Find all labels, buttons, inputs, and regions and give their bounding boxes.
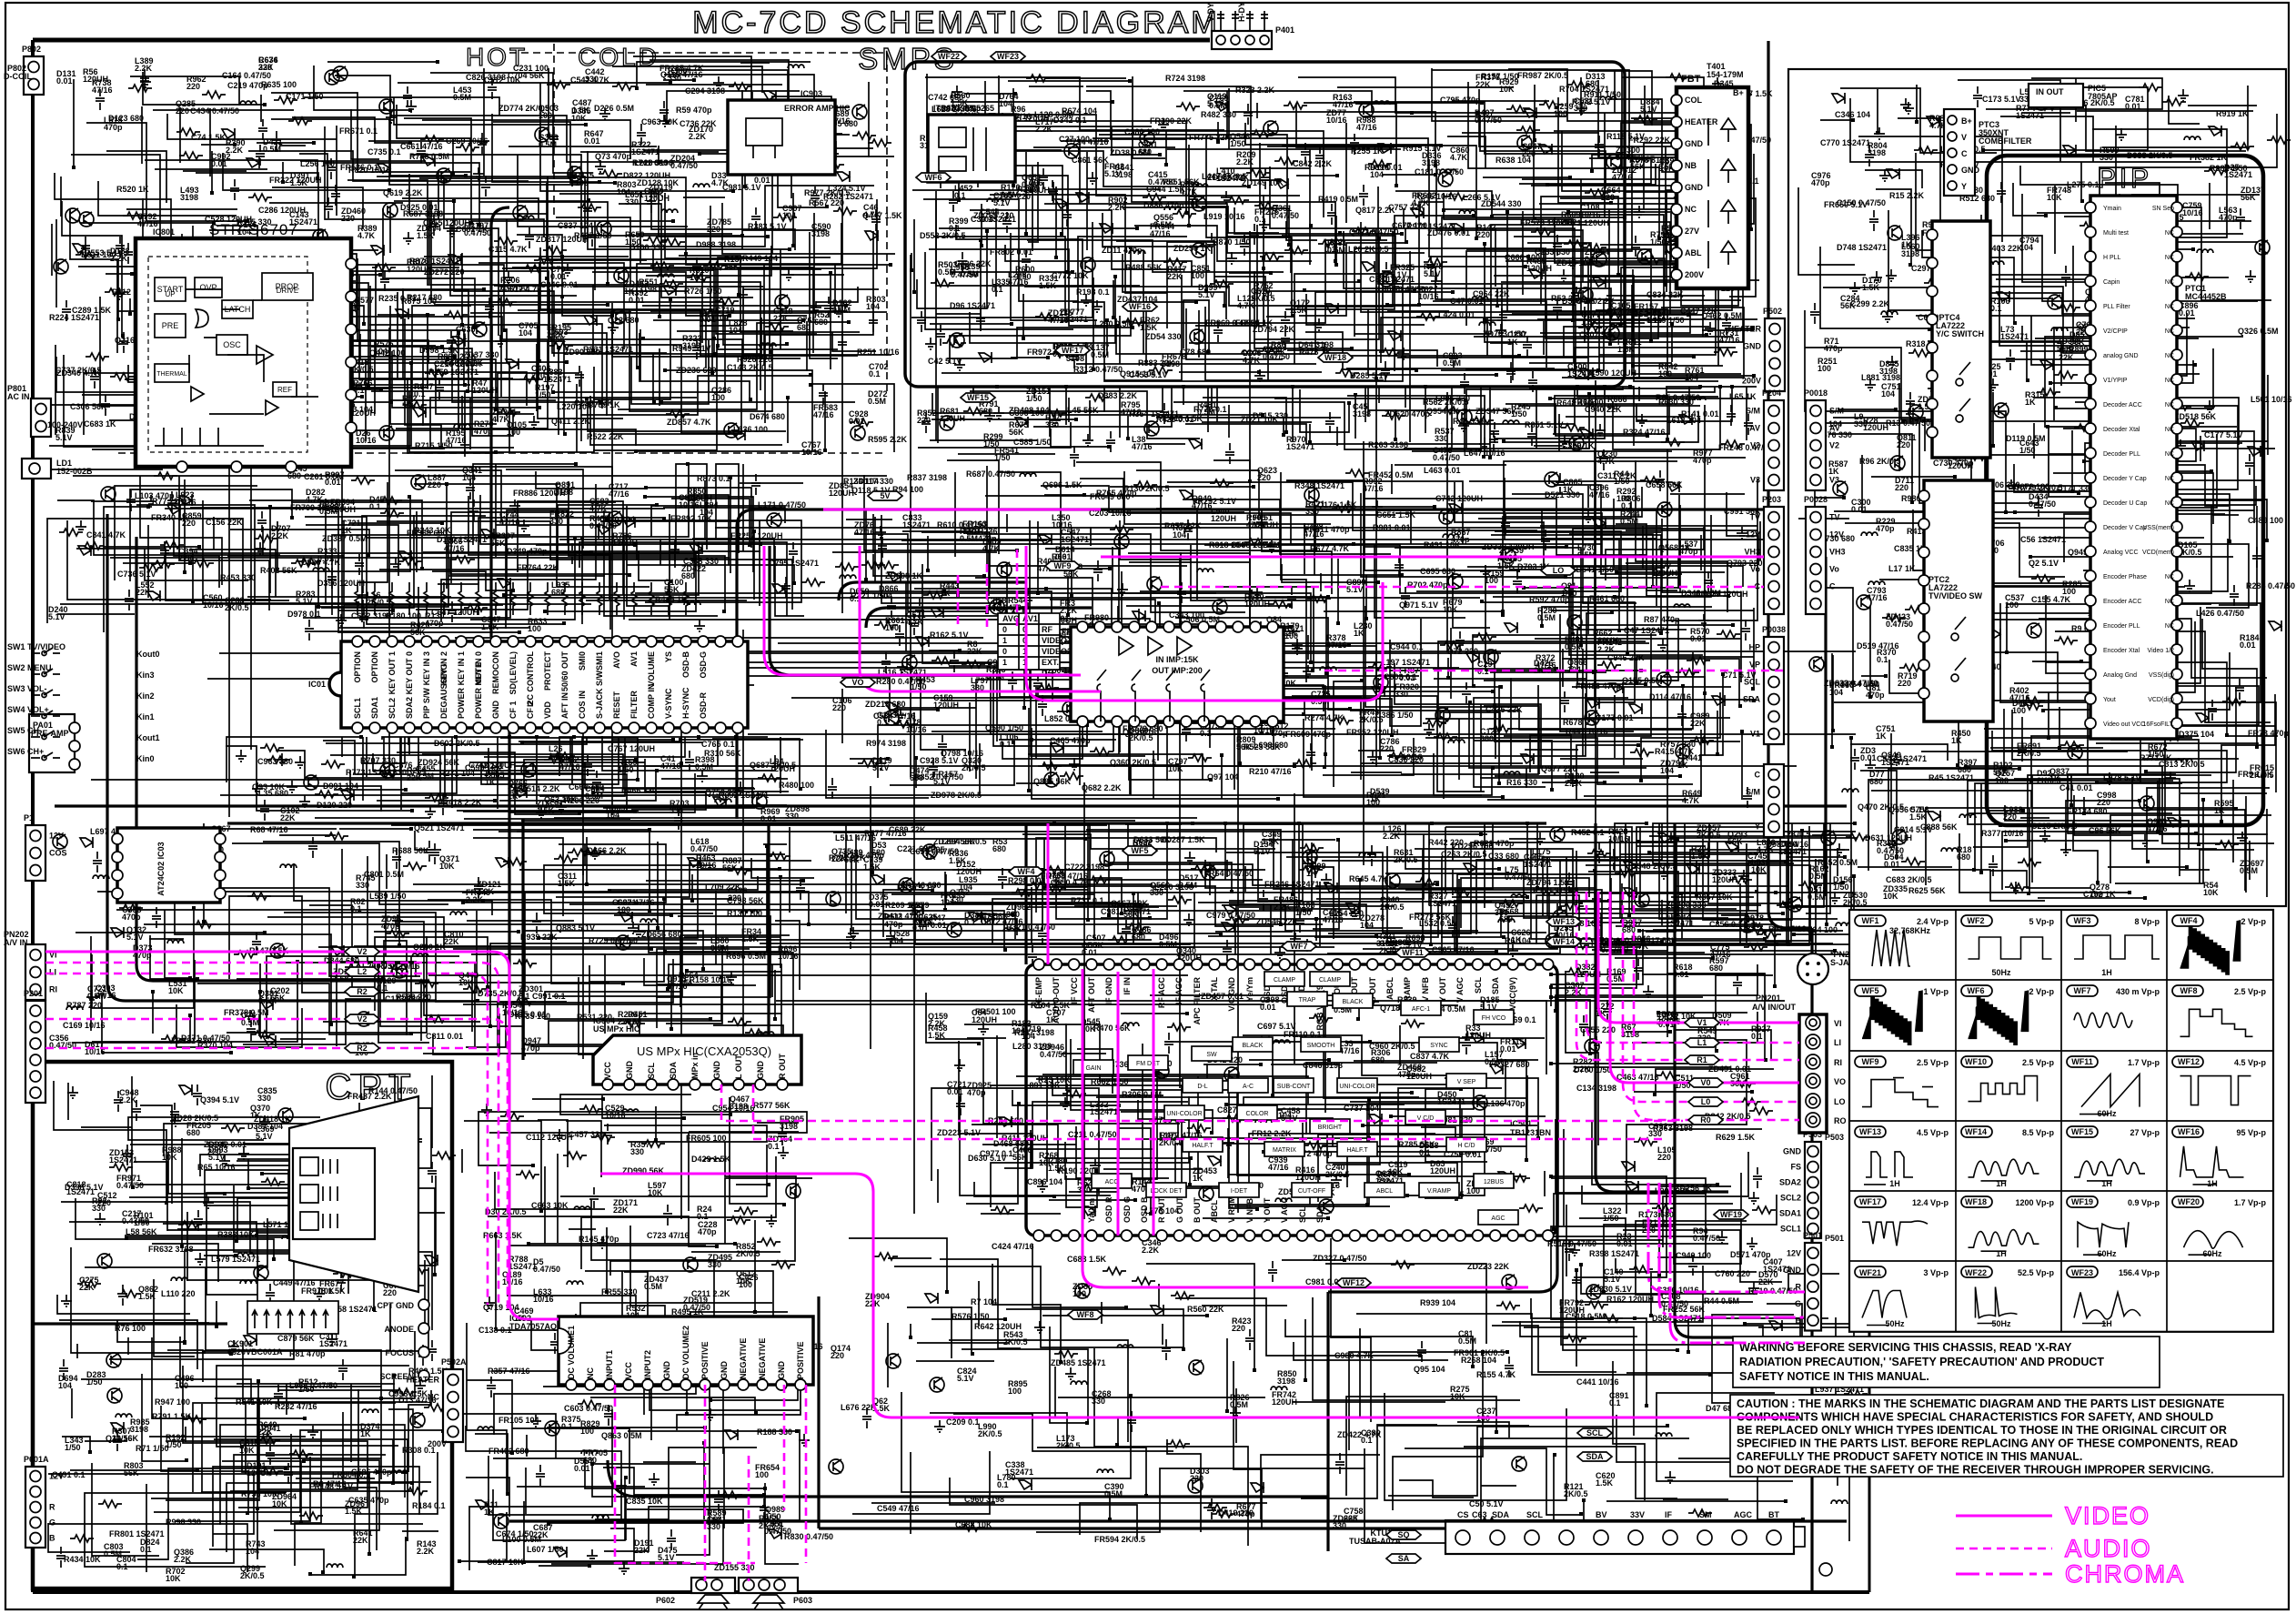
svg-text:C603 0.47/50: C603 0.47/50 xyxy=(564,1404,613,1413)
svg-text:C965 47/16: C965 47/16 xyxy=(1432,945,1475,954)
svg-text:C964 22K: C964 22K xyxy=(1473,289,1510,298)
svg-text:1/50: 1/50 xyxy=(983,439,1000,449)
svg-text:Kin0: Kin0 xyxy=(136,754,155,763)
svg-text:WF15: WF15 xyxy=(967,393,989,402)
svg-text:C306 56K: C306 56K xyxy=(70,402,107,411)
svg-text:D114 47/16: D114 47/16 xyxy=(1649,692,1691,701)
svg-text:MC-7CD SCHEMATIC DIAGRAM: MC-7CD SCHEMATIC DIAGRAM xyxy=(692,5,1220,40)
svg-text:680: 680 xyxy=(1371,1055,1385,1064)
svg-text:5.1V: 5.1V xyxy=(1254,847,1271,856)
svg-text:470p: 470p xyxy=(1824,344,1843,353)
svg-text:220: 220 xyxy=(707,225,720,234)
svg-text:22K: 22K xyxy=(178,554,194,563)
svg-text:FR411 470p: FR411 470p xyxy=(1304,525,1350,534)
svg-text:R247 3198: R247 3198 xyxy=(1014,1028,1054,1037)
svg-text:1/50: 1/50 xyxy=(1015,272,1032,281)
svg-text:Q73 470p: Q73 470p xyxy=(595,152,632,161)
svg-text:GND: GND xyxy=(1783,1147,1802,1156)
svg-text:220: 220 xyxy=(341,214,355,223)
svg-text:220: 220 xyxy=(1380,744,1394,753)
svg-text:AV1: AV1 xyxy=(629,651,639,667)
svg-text:47/16: 47/16 xyxy=(1132,442,1153,451)
svg-text:Yout: Yout xyxy=(2103,697,2116,703)
svg-text:REMOCON: REMOCON xyxy=(491,651,500,694)
svg-text:MPx in: MPx in xyxy=(690,1053,700,1079)
svg-text:3198: 3198 xyxy=(780,1122,798,1131)
svg-text:27 Vp-p: 27 Vp-p xyxy=(2130,1128,2160,1137)
svg-text:2.2K: 2.2K xyxy=(1035,125,1053,134)
svg-text:WF19: WF19 xyxy=(2071,1197,2093,1206)
svg-text:680: 680 xyxy=(797,323,811,332)
svg-text:C837 4.7K: C837 4.7K xyxy=(1410,1052,1450,1061)
svg-text:WF6: WF6 xyxy=(1968,986,1985,995)
svg-text:COL: COL xyxy=(1685,96,1703,105)
svg-text:WF8: WF8 xyxy=(2180,986,2198,995)
svg-text:330: 330 xyxy=(549,517,563,526)
svg-text:P201: P201 xyxy=(24,989,43,998)
svg-text:1S2471: 1S2471 xyxy=(1286,442,1314,451)
svg-text:220: 220 xyxy=(176,106,189,116)
svg-text:220: 220 xyxy=(1190,1474,1203,1483)
svg-text:NC: NC xyxy=(2165,279,2174,286)
svg-text:FR987 2K/0.5: FR987 2K/0.5 xyxy=(1517,71,1568,80)
svg-text:SDA2: SDA2 xyxy=(405,697,414,719)
svg-text:L228 3198: L228 3198 xyxy=(634,158,673,167)
svg-text:D515 0.01: D515 0.01 xyxy=(509,1010,547,1019)
svg-text:Q619 2.2K: Q619 2.2K xyxy=(383,188,423,197)
svg-text:V1: V1 xyxy=(1750,730,1760,739)
svg-text:R318 104: R318 104 xyxy=(1209,540,1244,550)
svg-text:56K: 56K xyxy=(2241,193,2256,202)
svg-text:330: 330 xyxy=(1395,690,1408,699)
svg-text:0.1: 0.1 xyxy=(1200,729,1212,738)
svg-text:SMI0: SMI0 xyxy=(578,651,587,671)
svg-text:Y: Y xyxy=(1755,822,1760,832)
svg-text:22K: 22K xyxy=(1475,80,1491,89)
svg-text:2K/0.5: 2K/0.5 xyxy=(962,763,986,772)
svg-text:104: 104 xyxy=(246,1547,259,1556)
svg-text:5.1V: 5.1V xyxy=(126,933,144,942)
svg-text:1S2471: 1S2471 xyxy=(631,147,660,156)
svg-text:D96 1S2471: D96 1S2471 xyxy=(950,301,995,310)
svg-text:FR246 1S2471: FR246 1S2471 xyxy=(1264,880,1320,889)
svg-text:680: 680 xyxy=(979,407,992,416)
svg-text:R2: R2 xyxy=(357,1044,368,1053)
svg-text:47/16: 47/16 xyxy=(1150,229,1171,238)
svg-text:RESET: RESET xyxy=(612,691,621,719)
svg-text:104: 104 xyxy=(1173,530,1186,540)
svg-text:C807 56K: C807 56K xyxy=(1579,330,1616,339)
svg-text:2K/0.5: 2K/0.5 xyxy=(367,598,391,607)
svg-text:10/16: 10/16 xyxy=(778,952,799,961)
svg-text:C663 10K: C663 10K xyxy=(531,1201,569,1210)
svg-text:C742 120UH: C742 120UH xyxy=(1435,494,1483,503)
svg-text:C441 10/16: C441 10/16 xyxy=(1576,1377,1619,1387)
svg-text:1.5K: 1.5K xyxy=(1691,852,1709,861)
svg-text:R662 1/50: R662 1/50 xyxy=(1091,1077,1129,1086)
svg-text:C674 1/50: C674 1/50 xyxy=(496,1529,534,1538)
svg-text:THERMAL: THERMAL xyxy=(156,371,187,378)
svg-text:POWER: POWER xyxy=(457,687,466,719)
svg-text:C998 1.5K: C998 1.5K xyxy=(388,1389,428,1398)
svg-text:R274 4.7K: R274 4.7K xyxy=(1304,713,1344,722)
svg-text:UNI-COLOR: UNI-COLOR xyxy=(1339,1084,1375,1090)
svg-text:SN Sep: SN Sep xyxy=(2152,206,2174,212)
svg-text:10/16: 10/16 xyxy=(356,436,377,445)
svg-text:R645 4.7K: R645 4.7K xyxy=(1349,874,1389,883)
svg-text:VIDEO2: VIDEO2 xyxy=(1042,647,1072,656)
svg-text:Y OUT: Y OUT xyxy=(1263,1197,1272,1223)
svg-text:470p: 470p xyxy=(1811,178,1830,187)
svg-text:0.5M: 0.5M xyxy=(263,145,281,154)
svg-text:60Hz: 60Hz xyxy=(2202,1249,2222,1258)
svg-text:C960 2K/0.5: C960 2K/0.5 xyxy=(1369,1042,1415,1051)
svg-text:R155 4.7K: R155 4.7K xyxy=(1476,1370,1516,1379)
svg-text:OSD R: OSD R xyxy=(1104,1196,1113,1223)
svg-text:56K: 56K xyxy=(844,855,860,864)
svg-text:AVO: AVO xyxy=(612,651,621,669)
svg-text:FR775 22K: FR775 22K xyxy=(1189,133,1232,142)
svg-text:VSS(dig): VSS(dig) xyxy=(2149,672,2174,679)
svg-text:GND: GND xyxy=(1685,183,1704,192)
svg-text:TV: TV xyxy=(1829,513,1840,522)
svg-text:C164 0.47/50: C164 0.47/50 xyxy=(222,71,271,80)
svg-text:R188 330: R188 330 xyxy=(757,1427,792,1437)
svg-text:HEATER: HEATER xyxy=(407,1376,440,1385)
svg-text:VCD(mem): VCD(mem) xyxy=(2142,550,2174,556)
svg-text:C138 0.1: C138 0.1 xyxy=(478,1326,512,1335)
svg-text:C795 1S2471: C795 1S2471 xyxy=(769,559,819,568)
svg-text:AUDIO-OUT: AUDIO-OUT xyxy=(1052,977,1061,1024)
svg-text:C309 1K: C309 1K xyxy=(1562,441,1595,450)
svg-text:SCL2: SCL2 xyxy=(388,698,397,719)
svg-text:P0038: P0038 xyxy=(1762,625,1786,634)
svg-text:SAFETY NOTICE IN THIS MANUAL.: SAFETY NOTICE IN THIS MANUAL. xyxy=(1739,1370,1929,1383)
svg-text:0.5M: 0.5M xyxy=(1537,613,1556,622)
svg-text:50Hz: 50Hz xyxy=(1991,1319,2011,1328)
svg-text:C651 1.5K: C651 1.5K xyxy=(1376,510,1416,520)
svg-text:B+: B+ xyxy=(1961,116,1972,126)
svg-text:GAIN: GAIN xyxy=(1085,1065,1101,1072)
svg-text:D342 0.1: D342 0.1 xyxy=(1053,116,1087,125)
svg-text:GND: GND xyxy=(1685,139,1704,148)
svg-text:NC: NC xyxy=(2165,500,2174,507)
svg-text:R: R xyxy=(1796,1282,1802,1291)
svg-text:0.5M: 0.5M xyxy=(695,762,713,772)
svg-text:104: 104 xyxy=(484,769,498,778)
svg-text:SCL: SCL xyxy=(1744,678,1761,687)
svg-text:FR488 470p: FR488 470p xyxy=(1576,681,1622,691)
svg-text:AN5265: AN5265 xyxy=(964,104,994,113)
svg-text:R687 3198: R687 3198 xyxy=(403,209,443,218)
svg-text:TDA7057AQ: TDA7057AQ xyxy=(509,1322,557,1331)
svg-text:WF12: WF12 xyxy=(1343,1278,1365,1287)
svg-text:2K/0.5: 2K/0.5 xyxy=(2017,749,2041,758)
svg-text:100: 100 xyxy=(1485,576,1498,585)
svg-text:L424 0.01: L424 0.01 xyxy=(1438,310,1475,319)
svg-text:SM: SM xyxy=(1699,1510,1712,1519)
svg-text:R707 330: R707 330 xyxy=(360,756,396,765)
svg-text:C683 1.5K: C683 1.5K xyxy=(1067,1255,1107,1264)
svg-text:0.01: 0.01 xyxy=(931,921,947,930)
svg-text:D991 104: D991 104 xyxy=(323,782,358,791)
svg-text:Kout1: Kout1 xyxy=(136,733,160,742)
svg-text:Ymain: Ymain xyxy=(2103,206,2121,212)
svg-text:R831 1S2471: R831 1S2471 xyxy=(583,345,633,354)
svg-text:100: 100 xyxy=(1616,494,1630,503)
svg-text:120UH: 120UH xyxy=(247,1468,272,1478)
svg-text:L254 220: L254 220 xyxy=(1329,909,1364,918)
svg-text:C735 0.1: C735 0.1 xyxy=(368,147,401,156)
svg-text:10K: 10K xyxy=(736,1276,751,1286)
svg-text:220: 220 xyxy=(186,82,200,91)
svg-text:WF15: WF15 xyxy=(2071,1127,2093,1136)
svg-text:2.5 Vp-p: 2.5 Vp-p xyxy=(1917,1058,1949,1067)
svg-text:RF: RF xyxy=(1042,625,1052,634)
svg-text:C661 47/16: C661 47/16 xyxy=(400,142,443,151)
svg-text:R678 0.1: R678 0.1 xyxy=(1563,718,1596,727)
svg-text:C846 3198: C846 3198 xyxy=(1303,1061,1343,1070)
svg-text:CF 1: CF 1 xyxy=(509,701,518,719)
svg-text:Vo: Vo xyxy=(1750,565,1760,574)
svg-text:3198: 3198 xyxy=(130,1425,148,1434)
svg-text:C742 680: C742 680 xyxy=(928,93,963,102)
svg-text:C683 2K/0.5: C683 2K/0.5 xyxy=(1886,875,1932,884)
svg-text:WF13: WF13 xyxy=(1859,1127,1881,1136)
svg-text:100: 100 xyxy=(1554,109,1567,118)
svg-text:1K: 1K xyxy=(1306,869,1317,878)
svg-text:ZD457 0.01: ZD457 0.01 xyxy=(1201,992,1244,1001)
svg-text:HEATER: HEATER xyxy=(1728,325,1762,334)
svg-text:S/M: S/M xyxy=(1829,407,1844,416)
svg-text:A/V IN/OUT: A/V IN/OUT xyxy=(1752,1003,1797,1012)
svg-text:IF GND: IF GND xyxy=(1104,977,1113,1005)
svg-text:Q442 100: Q442 100 xyxy=(369,348,406,358)
svg-text:C457 330: C457 330 xyxy=(569,1130,604,1139)
svg-text:470p: 470p xyxy=(104,123,123,132)
svg-text:1.5K: 1.5K xyxy=(1039,281,1057,290)
svg-text:COMPONENTS WHICH HAVE SPECIAL: COMPONENTS WHICH HAVE SPECIAL CHARACTERI… xyxy=(1737,1411,2213,1424)
svg-text:47/16: 47/16 xyxy=(1589,490,1610,499)
svg-text:D-L: D-L xyxy=(1197,1084,1207,1090)
svg-text:NC: NC xyxy=(1685,205,1697,214)
svg-text:SW6 CH+: SW6 CH+ xyxy=(7,747,44,756)
svg-text:C549 47/16: C549 47/16 xyxy=(877,1504,920,1513)
svg-text:100: 100 xyxy=(2090,890,2103,899)
svg-text:C169 10/16: C169 10/16 xyxy=(63,1021,106,1030)
svg-text:R198 0.1: R198 0.1 xyxy=(1076,287,1110,297)
svg-text:100: 100 xyxy=(755,1470,769,1479)
svg-text:100: 100 xyxy=(690,273,703,282)
svg-text:WF3: WF3 xyxy=(2074,916,2091,925)
svg-text:10/16: 10/16 xyxy=(533,1295,554,1304)
svg-text:WF10: WF10 xyxy=(1965,1057,1987,1066)
svg-text:P802: P802 xyxy=(22,45,41,54)
svg-text:2.2K: 2.2K xyxy=(110,254,128,263)
svg-text:HEATER: HEATER xyxy=(1685,117,1718,126)
svg-text:Q2 5.1V: Q2 5.1V xyxy=(2029,559,2059,568)
svg-text:HALF.T: HALF.T xyxy=(1346,1147,1368,1154)
svg-text:Encoder ACC: Encoder ACC xyxy=(2103,599,2141,605)
svg-text:ZD11 470p: ZD11 470p xyxy=(1102,246,1143,255)
svg-text:56K: 56K xyxy=(722,863,738,873)
svg-text:FR594 2K/0.5: FR594 2K/0.5 xyxy=(1094,1535,1145,1544)
svg-text:200V: 200V xyxy=(1742,377,1761,386)
svg-text:1K: 1K xyxy=(925,852,936,862)
svg-text:R482 330: R482 330 xyxy=(1201,110,1236,119)
svg-text:Video out VCC: Video out VCC xyxy=(2103,721,2145,728)
svg-text:0.01: 0.01 xyxy=(1616,1239,1633,1248)
svg-text:220: 220 xyxy=(728,893,741,903)
svg-text:1/50: 1/50 xyxy=(65,1443,81,1452)
svg-text:C50 5.1V: C50 5.1V xyxy=(1469,1499,1504,1508)
svg-text:0.01: 0.01 xyxy=(1851,505,1868,514)
svg-text:OSD G: OSD G xyxy=(1123,1196,1132,1223)
svg-text:0.5M: 0.5M xyxy=(2240,866,2258,875)
svg-text:R173 680: R173 680 xyxy=(1638,1210,1674,1219)
svg-text:Q682 2.2K: Q682 2.2K xyxy=(1082,783,1122,792)
svg-text:0.1: 0.1 xyxy=(877,718,889,727)
svg-text:WF5: WF5 xyxy=(1132,846,1149,855)
svg-text:100: 100 xyxy=(575,178,589,187)
svg-text:1.5K: 1.5K xyxy=(1140,323,1158,332)
svg-text:ZD21 10K: ZD21 10K xyxy=(1241,415,1279,424)
svg-text:C42 5.1V: C42 5.1V xyxy=(928,357,962,366)
svg-text:C112 120UH: C112 120UH xyxy=(526,1133,573,1142)
svg-text:2.2K: 2.2K xyxy=(547,330,565,339)
svg-text:1K: 1K xyxy=(1193,1174,1203,1183)
svg-text:SCL1: SCL1 xyxy=(353,698,362,719)
svg-text:R729 0.47/50: R729 0.47/50 xyxy=(589,936,638,945)
svg-text:C246 0.01: C246 0.01 xyxy=(540,280,579,289)
svg-text:5.1V: 5.1V xyxy=(1744,921,1761,930)
svg-text:Q63 10K: Q63 10K xyxy=(544,795,578,804)
svg-text:0.01: 0.01 xyxy=(1399,673,1415,682)
svg-text:0.5M: 0.5M xyxy=(832,306,851,315)
svg-text:ZD28 2K/0.5: ZD28 2K/0.5 xyxy=(172,1114,218,1123)
svg-text:L881 3198: L881 3198 xyxy=(1861,373,1900,382)
svg-text:120UH: 120UH xyxy=(1244,600,1270,609)
svg-text:BV: BV xyxy=(1596,1510,1607,1519)
svg-text:R162 120UH: R162 120UH xyxy=(1606,1295,1654,1304)
svg-text:120UH: 120UH xyxy=(829,489,854,498)
svg-text:R363 3198: R363 3198 xyxy=(1653,1124,1693,1133)
svg-text:0.01: 0.01 xyxy=(1500,1044,1516,1054)
svg-text:C: C xyxy=(1829,582,1836,591)
svg-text:FBT: FBT xyxy=(1681,74,1701,85)
svg-text:ZD485 1S2471: ZD485 1S2471 xyxy=(1051,1358,1106,1367)
svg-text:4.5 Vp-p: 4.5 Vp-p xyxy=(1917,1128,1949,1137)
svg-text:ABCL: ABCL xyxy=(1376,1188,1393,1195)
svg-text:680: 680 xyxy=(1499,914,1513,923)
svg-text:R232 47/16: R232 47/16 xyxy=(275,1402,317,1411)
svg-text:Ya/Ym: Ya/Ym xyxy=(1087,1198,1096,1223)
svg-text:SUB-CONT: SUB-CONT xyxy=(1277,1084,1311,1090)
svg-text:470p: 470p xyxy=(1693,456,1712,465)
svg-text:C41 0.01: C41 0.01 xyxy=(2059,783,2093,792)
svg-text:AGC: AGC xyxy=(1734,1510,1753,1519)
svg-text:V2: V2 xyxy=(1750,441,1760,450)
svg-text:10K: 10K xyxy=(2047,193,2062,202)
svg-text:SW3 VOL-: SW3 VOL- xyxy=(7,684,47,693)
svg-text:TRAP: TRAP xyxy=(1299,997,1316,1004)
svg-text:R81 470p: R81 470p xyxy=(289,1349,326,1358)
svg-text:100: 100 xyxy=(1818,364,1831,373)
svg-text:C647 120UH: C647 120UH xyxy=(431,608,478,617)
svg-text:0.1: 0.1 xyxy=(116,1562,128,1571)
svg-text:22K: 22K xyxy=(1690,719,1706,728)
svg-text:CF 2: CF 2 xyxy=(526,701,535,719)
svg-text:FM DET: FM DET xyxy=(1136,1061,1161,1067)
svg-text:P0028: P0028 xyxy=(1804,495,1828,504)
svg-text:56K: 56K xyxy=(1271,348,1286,357)
svg-text:R312 0.47/50: R312 0.47/50 xyxy=(1073,365,1123,374)
svg-text:0.1: 0.1 xyxy=(949,224,961,233)
svg-text:SW5 CH-: SW5 CH- xyxy=(7,726,42,735)
svg-text:R16 330: R16 330 xyxy=(1506,778,1537,787)
svg-text:330: 330 xyxy=(257,1094,271,1103)
svg-text:Encoder Phase: Encoder Phase xyxy=(2103,574,2147,580)
svg-text:Q326 0.5M: Q326 0.5M xyxy=(2238,327,2279,336)
svg-text:IN IMP:15K: IN IMP:15K xyxy=(1155,655,1199,664)
svg-text:470p: 470p xyxy=(1397,1070,1416,1079)
svg-text:330: 330 xyxy=(356,881,369,890)
svg-text:V SEP: V SEP xyxy=(1457,1079,1476,1085)
svg-text:R71 1/50: R71 1/50 xyxy=(136,1444,169,1453)
svg-text:0.47/50: 0.47/50 xyxy=(116,1181,144,1190)
svg-text:Vo: Vo xyxy=(1829,565,1839,574)
svg-text:2K/0.5: 2K/0.5 xyxy=(1325,1170,1350,1179)
svg-text:R65 10/16: R65 10/16 xyxy=(197,1163,236,1172)
svg-text:0.5M: 0.5M xyxy=(1808,893,1826,902)
svg-text:104: 104 xyxy=(999,99,1012,108)
svg-text:0.1: 0.1 xyxy=(1990,304,2002,313)
svg-text:FR650 5.1V: FR650 5.1V xyxy=(1824,200,1868,209)
svg-text:R775 0.1: R775 0.1 xyxy=(1193,405,1227,414)
svg-text:5.1V: 5.1V xyxy=(1104,169,1122,178)
svg-text:10K: 10K xyxy=(1499,85,1515,94)
svg-text:120UH: 120UH xyxy=(1652,569,1677,578)
svg-text:UP: UP xyxy=(165,290,175,298)
svg-text:C861 56K: C861 56K xyxy=(1072,156,1109,165)
svg-text:INPUT2: INPUT2 xyxy=(643,1350,652,1379)
svg-text:MC44452B: MC44452B xyxy=(2185,292,2227,301)
svg-text:WF4: WF4 xyxy=(1018,867,1035,876)
svg-text:SMI1: SMI1 xyxy=(595,651,604,671)
svg-text:100: 100 xyxy=(507,428,520,437)
svg-text:2K/0.5: 2K/0.5 xyxy=(1394,855,1418,864)
svg-text:L579 1S2471: L579 1S2471 xyxy=(211,1255,260,1264)
svg-text:C47 1S2471: C47 1S2471 xyxy=(1624,626,1669,635)
svg-text:2.2K: 2.2K xyxy=(1236,157,1254,166)
svg-text:R251 10/16: R251 10/16 xyxy=(857,348,900,357)
svg-text:C343 100: C343 100 xyxy=(1169,610,1204,620)
svg-text:0.5M: 0.5M xyxy=(1620,517,1638,526)
svg-text:C294 3198: C294 3198 xyxy=(685,86,725,96)
svg-text:1.5K: 1.5K xyxy=(138,1292,156,1301)
svg-text:ZD236 680: ZD236 680 xyxy=(676,366,717,375)
svg-text:FR134 680: FR134 680 xyxy=(2067,807,2108,816)
svg-text:R210 47/16: R210 47/16 xyxy=(1249,767,1292,776)
svg-text:22K: 22K xyxy=(257,1427,273,1437)
svg-text:SA: SA xyxy=(1398,1554,1410,1563)
svg-text:1K: 1K xyxy=(2214,806,2225,815)
svg-text:D672 100: D672 100 xyxy=(2014,482,2049,491)
svg-text:NC: NC xyxy=(2165,402,2174,409)
svg-text:Q394 5.1V: Q394 5.1V xyxy=(200,1095,239,1105)
svg-text:1K: 1K xyxy=(1951,736,1962,745)
svg-text:0.1: 0.1 xyxy=(992,285,1003,294)
